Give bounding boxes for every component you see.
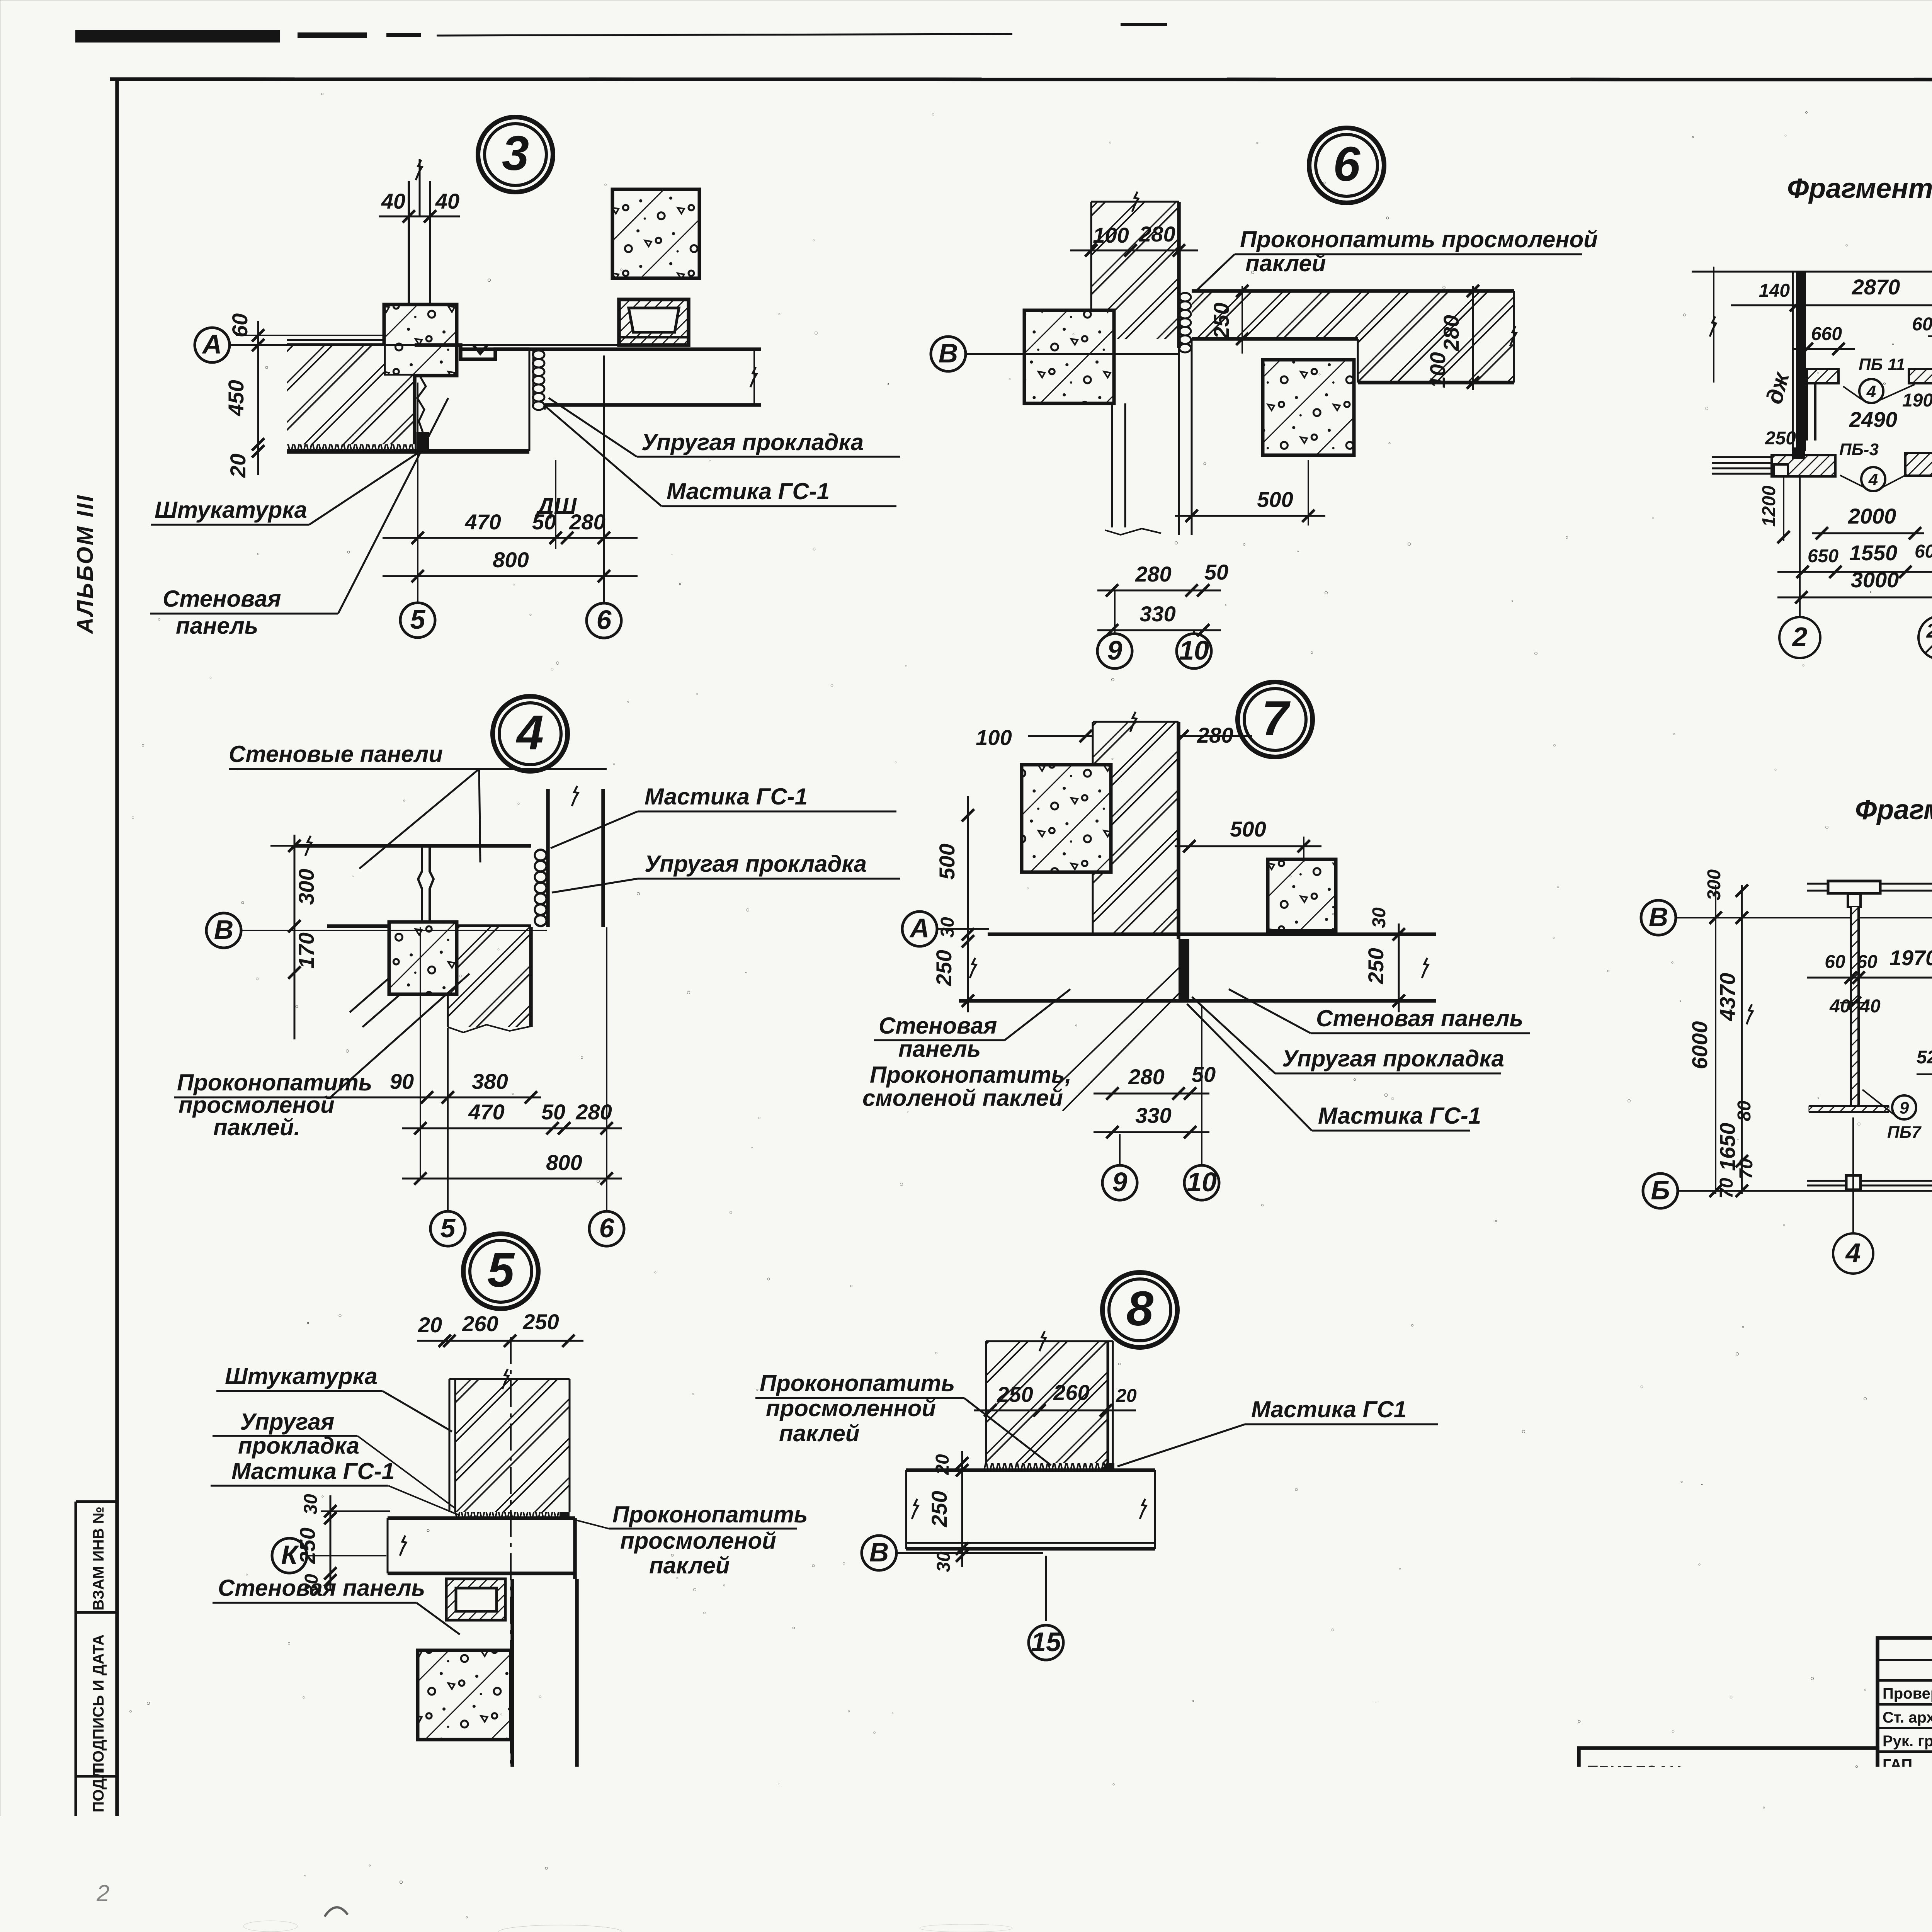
top dims: [1731, 304, 1932, 306]
bottom left wall stub: [1809, 1106, 1889, 1112]
svg-text:Б: Б: [1651, 1175, 1670, 1205]
top dims 100 280: [1028, 735, 1252, 737]
svg-text:280: 280: [1135, 562, 1171, 586]
svg-text:30: 30: [937, 917, 958, 938]
staff table rows: [1878, 1659, 1932, 1661]
svg-text:просмоленой: просмоленой: [179, 1092, 335, 1118]
black shear wall bar: [1796, 272, 1806, 451]
mastic joint black: [1179, 939, 1189, 1001]
svg-text:9: 9: [507, 1827, 522, 1857]
hollow core slab symbol: [619, 299, 689, 345]
svg-text:Рук. гр.: Рук. гр.: [1883, 1733, 1932, 1750]
svg-text:паклей: паклей: [779, 1420, 859, 1446]
node circle 6: [1309, 128, 1384, 203]
dim 1200 rot: [1783, 477, 1784, 541]
top dims 100 280: [1070, 250, 1198, 252]
svg-text:Н. контр.: Н. контр.: [1883, 1827, 1932, 1844]
mastic joint fill: [417, 432, 429, 451]
svg-text:15: 15: [1031, 1627, 1061, 1657]
concrete key block: [384, 304, 457, 376]
svg-text:АЛЬБОМ III: АЛЬБОМ III: [73, 494, 98, 634]
svg-text:380: 380: [472, 1069, 508, 1094]
svg-text:40: 40: [1859, 996, 1881, 1017]
right concrete block: [1268, 859, 1336, 931]
svg-text:6: 6: [1333, 137, 1361, 191]
svg-text:70: 70: [1736, 1158, 1757, 1179]
svg-text:А: А: [909, 913, 930, 943]
left 30 250 dims: [962, 935, 974, 947]
svg-text:Фрагмент плана 3: Фрагмент плана 3: [1855, 794, 1932, 825]
svg-text:250: 250: [1765, 428, 1796, 449]
svg-text:Стеновая панель: Стеновая панель: [218, 1575, 425, 1601]
left concrete block: [1024, 310, 1114, 403]
svg-text:4: 4: [1866, 382, 1876, 401]
svg-text:В: В: [869, 1537, 889, 1567]
svg-text:ВЗАМ ИНВ №: ВЗАМ ИНВ №: [90, 1507, 107, 1611]
svg-text:50: 50: [541, 1100, 565, 1124]
left dim chain: [1741, 885, 1743, 1194]
svg-text:Штукатурка: Штукатурка: [225, 1363, 378, 1389]
svg-text:7: 7: [1262, 691, 1291, 745]
concrete block: [418, 1650, 511, 1740]
svg-text:330: 330: [1135, 1103, 1171, 1128]
left wall panel hatched: [287, 345, 415, 444]
svg-text:1550: 1550: [1849, 541, 1898, 565]
svg-text:9: 9: [1900, 1099, 1909, 1117]
svg-text:9: 9: [1107, 635, 1122, 665]
node circle 4: [493, 696, 568, 771]
svg-text:170: 170: [294, 932, 318, 968]
central hatched wall: [455, 1379, 570, 1512]
svg-text:ПОДПИСЬ И ДАТА: ПОДПИСЬ И ДАТА: [90, 1634, 107, 1774]
svg-text:4: 4: [515, 705, 544, 760]
TITLE BLOCK: [1579, 1638, 1932, 1927]
svg-text:600: 600: [1915, 541, 1932, 562]
svg-text:Упругая: Упругая: [240, 1409, 334, 1435]
svg-text:470: 470: [464, 510, 501, 534]
svg-text:Проконопатить: Проконопатить: [612, 1502, 808, 1527]
svg-text:650: 650: [1808, 546, 1838, 566]
svg-text:Проконопатить: Проконопатить: [760, 1370, 955, 1396]
svg-text:70: 70: [1716, 1178, 1737, 1199]
top scanner bar artifact: [75, 30, 280, 43]
svg-text:250: 250: [1209, 303, 1233, 339]
bottom dims 280 50 / 330: [1094, 1093, 1209, 1095]
svg-text:520: 520: [1917, 1047, 1932, 1068]
svg-text:4: 4: [1868, 470, 1878, 489]
svg-text:Мастика ГС-1: Мастика ГС-1: [231, 1458, 395, 1484]
axis K: [272, 1538, 307, 1573]
svg-text:2870: 2870: [1852, 275, 1900, 299]
floor band: [906, 1468, 1155, 1472]
top wall line: [1692, 271, 1932, 273]
wall panel white with notch: [415, 345, 529, 359]
svg-text:30: 30: [934, 1551, 954, 1572]
right 30 250 dims: [1398, 923, 1400, 1012]
axis B circle: [206, 913, 241, 948]
svg-text:3000: 3000: [1851, 568, 1899, 592]
bottom left wall block: [1772, 455, 1835, 476]
concrete block: [389, 922, 457, 994]
bottom axis Б wall: [1807, 1180, 1932, 1182]
svg-text:5: 5: [410, 604, 426, 634]
svg-text:В: В: [214, 915, 234, 945]
dim 250 vertical: [1242, 286, 1243, 354]
upper wall joint stem: [408, 181, 410, 305]
svg-text:100: 100: [976, 725, 1012, 750]
lintel right hatched: [1909, 369, 1932, 383]
lower wall hatched: [448, 927, 531, 1027]
svg-text:ПБ 11: ПБ 11: [1859, 355, 1905, 374]
svg-text:Упругая прокладка: Упругая прокладка: [641, 429, 864, 455]
left annex (binding) table: [1579, 1748, 1878, 1791]
axis circles 5 and 6: [400, 603, 435, 638]
svg-text:20: 20: [418, 1313, 442, 1337]
svg-text:Упругая прокладка: Упругая прокладка: [645, 851, 867, 877]
svg-text:450: 450: [224, 380, 248, 416]
svg-text:Мастика ГС-1: Мастика ГС-1: [1318, 1103, 1481, 1129]
svg-text:Ст. арх.: Ст. арх.: [1883, 1709, 1932, 1726]
svg-text:ИНВ. № ПОДЛ: ИНВ. № ПОДЛ: [90, 1768, 107, 1876]
axis A: [902, 912, 937, 946]
svg-text:40: 40: [381, 189, 405, 213]
svg-text:паклей.: паклей.: [213, 1114, 300, 1140]
svg-text:5: 5: [487, 1243, 515, 1297]
svg-text:ГИП: ГИП: [1883, 1780, 1913, 1797]
axis circles 9 10: [1097, 634, 1132, 668]
node circle 5: [463, 1234, 538, 1309]
svg-text:Стеновая панель: Стеновая панель: [1316, 1005, 1523, 1031]
svg-text:Мастика ГС-1: Мастика ГС-1: [667, 478, 830, 504]
svg-text:6: 6: [599, 1213, 615, 1243]
svg-text:280: 280: [1139, 222, 1175, 246]
top dims 20 260 250: [417, 1340, 583, 1342]
dim 2000: [1812, 532, 1924, 534]
concrete block under slab: [1263, 360, 1354, 455]
svg-text:2: 2: [1792, 622, 1808, 652]
svg-text:А: А: [202, 329, 222, 359]
svg-text:60: 60: [1912, 314, 1932, 335]
svg-text:260: 260: [1053, 1380, 1089, 1405]
interior vertical wall: [1851, 907, 1859, 1110]
svg-text:ПБ7: ПБ7: [1887, 1123, 1922, 1142]
svg-text:2: 2: [1926, 620, 1932, 642]
bottom dim row 800: [402, 1178, 622, 1180]
svg-text:ПБ-3: ПБ-3: [1839, 440, 1879, 459]
gasket coil: [1179, 293, 1191, 352]
svg-text:50: 50: [1192, 1062, 1216, 1087]
axis circle 9: [497, 1825, 532, 1860]
svg-text:2490: 2490: [1849, 407, 1898, 432]
svg-text:250: 250: [927, 1491, 951, 1527]
svg-text:Стеновая: Стеновая: [879, 1013, 997, 1039]
axis B: [862, 1536, 896, 1570]
svg-text:4: 4: [1845, 1238, 1861, 1268]
svg-text:500: 500: [935, 844, 959, 879]
top wall: [1807, 883, 1932, 885]
gasket strip under wall: [455, 1512, 570, 1519]
svg-text:280: 280: [1439, 315, 1463, 351]
axis В: [1641, 900, 1676, 935]
svg-text:Проконопатить просмоленой: Проконопатить просмоленой: [1240, 226, 1598, 252]
svg-text:10: 10: [1187, 1167, 1217, 1197]
left vertical dim 500: [967, 796, 969, 954]
bottom dim chain 470 50 280 / 800: [417, 383, 418, 603]
svg-text:250: 250: [1364, 948, 1388, 984]
svg-text:просмоленной: просмоленной: [766, 1395, 936, 1421]
right vertical wall panel: [546, 789, 550, 927]
svg-text:280: 280: [1128, 1065, 1164, 1089]
svg-text:90: 90: [390, 1069, 414, 1094]
svg-text:330: 330: [1139, 602, 1175, 626]
svg-text:470: 470: [468, 1100, 504, 1124]
svg-text:250: 250: [932, 950, 956, 986]
left dim chain 60 450 20: [257, 321, 259, 475]
left concrete block: [1022, 765, 1111, 872]
dim 3000: [1777, 597, 1932, 599]
svg-text:250: 250: [522, 1310, 559, 1334]
svg-text:20: 20: [226, 454, 250, 478]
svg-text:Стеновая: Стеновая: [163, 586, 281, 612]
plaster strip: [287, 444, 415, 451]
svg-text:В: В: [939, 338, 958, 368]
svg-text:Упругая прокладка: Упругая прокладка: [1282, 1046, 1504, 1071]
svg-text:800: 800: [493, 548, 529, 572]
svg-text:280: 280: [569, 510, 605, 534]
upper hatched wall: [1091, 202, 1179, 339]
hollow vent block: [446, 1579, 505, 1620]
staff table outer: [1878, 1638, 1932, 1894]
svg-text:50: 50: [532, 510, 556, 534]
border left line: [115, 79, 119, 1883]
svg-text:2000: 2000: [1848, 504, 1896, 528]
svg-text:Проконопатить,: Проконопатить,: [870, 1062, 1071, 1088]
wall below: [1111, 403, 1113, 527]
left ceiling slab edge: [287, 339, 384, 341]
svg-text:800: 800: [546, 1150, 582, 1175]
floor band: [988, 932, 1436, 936]
svg-text:Проконопатить: Проконопатить: [177, 1070, 372, 1095]
svg-text:ГАП: ГАП: [1883, 1756, 1912, 1773]
floor band: [388, 1516, 575, 1520]
svg-text:Мастика ГС1: Мастика ГС1: [1251, 1396, 1406, 1422]
bottom dims 30 250: [479, 1815, 603, 1817]
svg-text:260: 260: [462, 1311, 498, 1336]
center axis line: [510, 1337, 512, 1816]
svg-text:190: 190: [1902, 390, 1932, 411]
svg-text:30: 30: [1369, 907, 1389, 928]
svg-text:1970: 1970: [1889, 946, 1932, 970]
inventory side column: [75, 1502, 77, 1879]
svg-text:2: 2: [96, 1880, 109, 1906]
svg-text:паклей: паклей: [649, 1553, 730, 1578]
left dim 300/170: [294, 835, 296, 1039]
axis circles 9 10: [1102, 1165, 1137, 1200]
svg-text:500: 500: [1257, 487, 1293, 512]
axis circle 15: [1045, 1556, 1047, 1621]
svg-text:смоленой паклей: смоленой паклей: [862, 1085, 1063, 1111]
svg-text:280: 280: [1197, 723, 1233, 747]
svg-text:панель: панель: [176, 613, 258, 639]
svg-text:10: 10: [1179, 635, 1209, 665]
svg-text:30: 30: [476, 1786, 500, 1810]
dim 40 40: [379, 216, 460, 218]
svg-text:20: 20: [1116, 1386, 1137, 1406]
dim 500: [1175, 515, 1325, 517]
svg-text:9: 9: [1112, 1167, 1128, 1197]
svg-text:100: 100: [1425, 352, 1450, 388]
right floor slab band: [461, 347, 761, 351]
svg-text:К: К: [281, 1540, 299, 1570]
right wall below: [510, 1579, 514, 1787]
svg-text:20: 20: [932, 1454, 953, 1475]
svg-text:8: 8: [1126, 1281, 1153, 1336]
bottom right wall block: [1905, 453, 1932, 476]
panel joint with bulb: [418, 846, 422, 926]
elastic gasket coil at joint: [533, 350, 544, 410]
dim 660: [1793, 348, 1855, 350]
svg-text:просмоленой: просмоленой: [620, 1528, 776, 1554]
svg-text:250: 250: [526, 1784, 562, 1808]
node circle 3: [478, 117, 553, 192]
lintel PB11 hatched: [1807, 369, 1838, 383]
svg-text:6: 6: [597, 605, 612, 635]
bottom dim row: [1777, 571, 1932, 573]
hatched wall: [986, 1341, 1108, 1463]
svg-text:300: 300: [294, 869, 318, 905]
upper concrete block right: [612, 189, 699, 278]
dims 250 260 20: [974, 1410, 1136, 1412]
dims 280 50 / 330: [1097, 590, 1221, 592]
extension lines: [420, 927, 421, 1179]
svg-text:Гл.инж.ин.: Гл.инж.ин.: [1881, 1877, 1932, 1891]
elastic gasket coil: [535, 850, 546, 926]
node circle 7: [1238, 682, 1313, 757]
svg-text:3: 3: [502, 126, 529, 180]
central hatched wall: [1093, 722, 1179, 934]
left slab edge lines: [1712, 456, 1772, 458]
right slab hatched: [1192, 291, 1514, 383]
bottom dim row 90 380: [332, 1097, 541, 1099]
svg-text:80: 80: [1734, 1100, 1755, 1121]
svg-text:Мастика ГС-1: Мастика ГС-1: [645, 784, 808, 810]
axis B circle: [931, 337, 966, 371]
svg-text:100: 100: [1093, 223, 1129, 247]
axis 4 circle: [1852, 1117, 1854, 1233]
svg-text:Фрагмент плана 1: Фрагмент плана 1: [1787, 173, 1932, 204]
leader lines: [359, 769, 479, 869]
svg-text:6000: 6000: [1687, 1021, 1712, 1070]
svg-text:В: В: [1649, 902, 1668, 932]
svg-text:500: 500: [1230, 817, 1266, 841]
svg-text:ИНВ №: ИНВ №: [1584, 1874, 1645, 1893]
gasket strip: [983, 1463, 1107, 1470]
upper slab band: [294, 844, 531, 848]
svg-text:60: 60: [228, 313, 252, 337]
top-left axis stub: [1713, 267, 1714, 383]
border top line: [110, 79, 1932, 80]
axis circles 2 and 2/3: [1799, 477, 1801, 616]
svg-text:60: 60: [1825, 952, 1845, 972]
dim 280 100 right: [1472, 286, 1474, 390]
border bottom line: [117, 1879, 1932, 1908]
svg-text:300: 300: [1704, 869, 1725, 900]
svg-text:50: 50: [1204, 560, 1228, 584]
svg-text:Проверил: Проверил: [1883, 1685, 1932, 1702]
svg-text:Гл.констр.: Гл.констр.: [1882, 1804, 1932, 1820]
svg-text:250: 250: [997, 1382, 1033, 1406]
svg-text:Штукатурка: Штукатурка: [155, 497, 307, 523]
svg-text:60: 60: [1857, 952, 1878, 972]
left dim 30 250 30: [330, 1495, 332, 1590]
svg-text:5: 5: [440, 1213, 456, 1243]
svg-text:140: 140: [1759, 281, 1790, 301]
svg-text:40: 40: [1829, 996, 1850, 1017]
axis Б: [1643, 1173, 1678, 1208]
svg-text:дж: дж: [1761, 369, 1794, 407]
axis A circle: [195, 328, 230, 362]
axis circles 5 6: [430, 1211, 465, 1246]
diagonal joint lines lower-left: [350, 928, 446, 1012]
svg-text:30: 30: [301, 1494, 321, 1515]
svg-text:ПРИВЯЗАН: ПРИВЯЗАН: [1587, 1762, 1682, 1781]
svg-text:1200: 1200: [1759, 485, 1779, 527]
svg-text:Нач. отд: Нач. отд: [1883, 1851, 1932, 1868]
svg-text:Стеновые панели: Стеновые панели: [229, 741, 443, 767]
svg-text:4370: 4370: [1715, 973, 1740, 1022]
bottom dim row 470 50 280: [402, 1128, 622, 1129]
node circle 8: [1102, 1272, 1177, 1347]
dim 500 right: [1175, 845, 1321, 847]
svg-text:40: 40: [435, 189, 459, 213]
dim texts upper: [1807, 977, 1932, 979]
left dim 20 250 30: [961, 1451, 963, 1567]
svg-text:660: 660: [1811, 324, 1842, 344]
